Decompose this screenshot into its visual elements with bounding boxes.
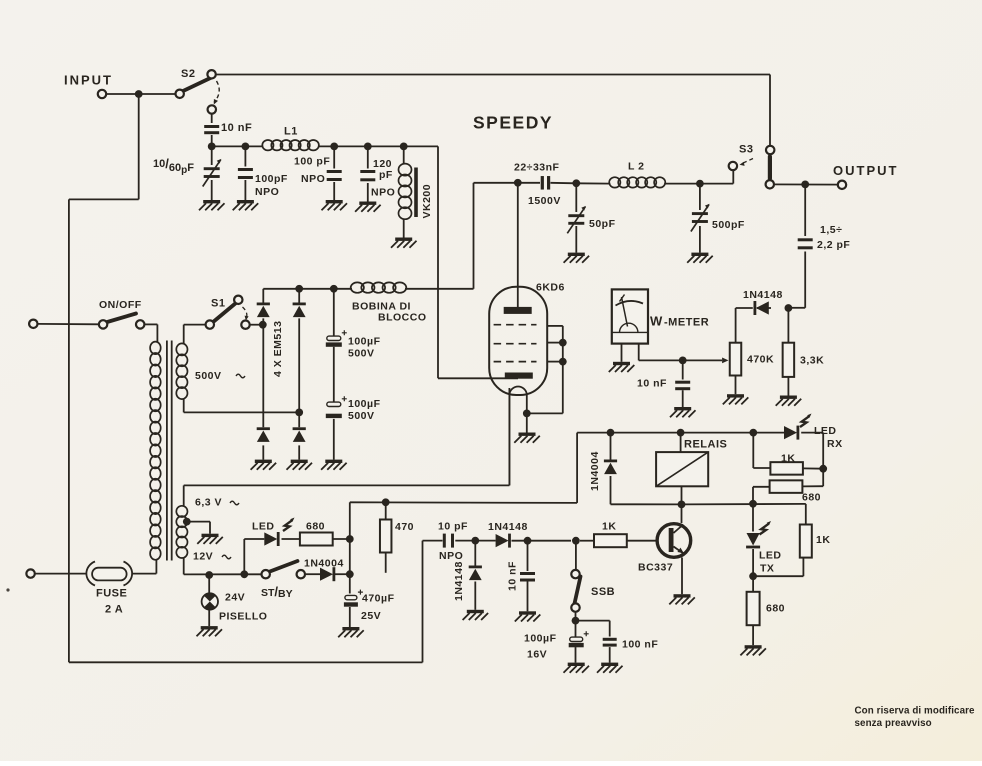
svg-text:16V: 16V bbox=[527, 649, 547, 661]
svg-text:pF: pF bbox=[379, 169, 393, 181]
svg-text:12V: 12V bbox=[193, 551, 213, 563]
svg-text:100µF: 100µF bbox=[524, 633, 557, 645]
svg-text:500V: 500V bbox=[348, 410, 375, 422]
svg-text:1N4148: 1N4148 bbox=[488, 521, 528, 533]
svg-text:FUSE: FUSE bbox=[96, 588, 127, 600]
svg-text:S3: S3 bbox=[739, 144, 753, 156]
svg-text:PISELLO: PISELLO bbox=[219, 611, 267, 623]
svg-text:3,3K: 3,3K bbox=[800, 355, 824, 367]
svg-text:10 nF: 10 nF bbox=[221, 122, 252, 134]
svg-text:500V: 500V bbox=[348, 348, 375, 360]
svg-text:100 nF: 100 nF bbox=[622, 639, 658, 651]
svg-text:INPUT: INPUT bbox=[64, 73, 113, 88]
svg-text:ON/OFF: ON/OFF bbox=[99, 299, 142, 311]
svg-text:100 pF: 100 pF bbox=[294, 156, 330, 168]
svg-text:500pF: 500pF bbox=[712, 219, 745, 231]
svg-text:RELAIS: RELAIS bbox=[684, 439, 727, 451]
svg-text:SPEEDY: SPEEDY bbox=[473, 113, 553, 133]
svg-text:TX: TX bbox=[760, 563, 774, 575]
svg-text:W: W bbox=[650, 314, 663, 329]
svg-text:NPO: NPO bbox=[301, 173, 325, 185]
svg-text:100pF: 100pF bbox=[255, 173, 288, 185]
svg-text:LED: LED bbox=[252, 521, 275, 533]
svg-text:1N4004: 1N4004 bbox=[589, 451, 601, 491]
svg-text:Con riserva di modificare: Con riserva di modificare bbox=[855, 706, 976, 717]
svg-text:1500V: 1500V bbox=[528, 195, 561, 207]
svg-text:LED: LED bbox=[759, 550, 782, 562]
svg-text:RX: RX bbox=[827, 438, 843, 450]
svg-text:BLOCCO: BLOCCO bbox=[378, 312, 427, 324]
svg-text:10 nF: 10 nF bbox=[507, 561, 519, 591]
svg-text:1N4004: 1N4004 bbox=[304, 558, 344, 570]
svg-text:470: 470 bbox=[395, 521, 414, 533]
svg-text:1K: 1K bbox=[816, 534, 830, 546]
svg-text:2 A: 2 A bbox=[105, 604, 123, 616]
svg-text:1K: 1K bbox=[602, 521, 616, 533]
svg-text:100µF: 100µF bbox=[348, 336, 381, 348]
svg-text:10 pF: 10 pF bbox=[438, 521, 468, 533]
svg-text:1K: 1K bbox=[781, 453, 795, 465]
svg-text:6KD6: 6KD6 bbox=[536, 282, 565, 294]
svg-text:470K: 470K bbox=[747, 354, 774, 366]
svg-text:senza preavviso: senza preavviso bbox=[855, 718, 932, 729]
svg-text:24V: 24V bbox=[225, 592, 245, 604]
svg-text:L 2: L 2 bbox=[628, 161, 644, 173]
svg-text:OUTPUT: OUTPUT bbox=[833, 163, 898, 178]
svg-text:25V: 25V bbox=[361, 610, 381, 622]
svg-text:NPO: NPO bbox=[255, 186, 279, 198]
svg-text:680: 680 bbox=[766, 603, 785, 615]
svg-text:S1: S1 bbox=[211, 298, 225, 310]
svg-text:22÷33nF: 22÷33nF bbox=[514, 162, 560, 174]
svg-text:500V: 500V bbox=[195, 370, 222, 382]
svg-text:LED: LED bbox=[814, 425, 837, 437]
svg-text:2,2 pF: 2,2 pF bbox=[817, 239, 850, 251]
svg-text:1N4148: 1N4148 bbox=[453, 561, 465, 601]
svg-text:10 nF: 10 nF bbox=[637, 378, 667, 390]
svg-text:L1: L1 bbox=[284, 126, 298, 138]
svg-text:1,5÷: 1,5÷ bbox=[820, 224, 842, 236]
svg-text:680: 680 bbox=[306, 521, 325, 533]
svg-text:470µF: 470µF bbox=[362, 593, 395, 605]
svg-text:SSB: SSB bbox=[591, 586, 615, 598]
svg-text:6,3 V: 6,3 V bbox=[195, 497, 222, 509]
svg-text:NPO: NPO bbox=[439, 550, 463, 562]
svg-text:680: 680 bbox=[802, 492, 821, 504]
svg-text:NPO: NPO bbox=[371, 187, 395, 199]
svg-text:VK200: VK200 bbox=[421, 184, 433, 219]
svg-text:-METER: -METER bbox=[664, 317, 709, 329]
svg-text:1N4148: 1N4148 bbox=[743, 289, 783, 301]
svg-text:BC337: BC337 bbox=[638, 562, 673, 574]
svg-text:50pF: 50pF bbox=[589, 218, 616, 230]
svg-text:100µF: 100µF bbox=[348, 398, 381, 410]
svg-text:S2: S2 bbox=[181, 68, 195, 80]
svg-text:4 X EM513: 4 X EM513 bbox=[272, 321, 284, 377]
